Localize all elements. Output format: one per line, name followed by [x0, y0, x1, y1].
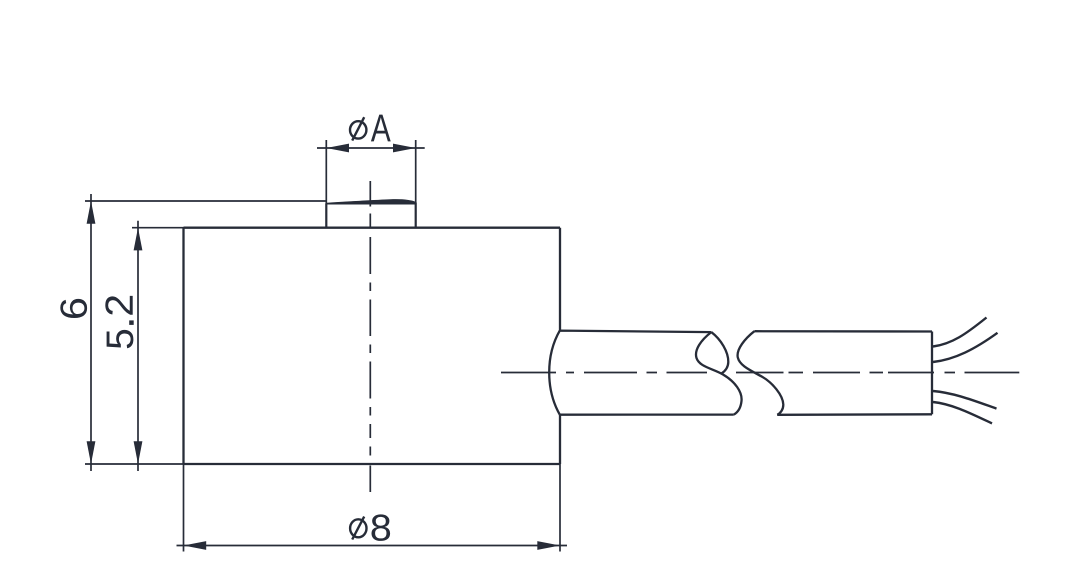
dimension 5.2 bottom arrow	[134, 441, 143, 464]
cable right segment outline	[754, 331, 932, 415]
load button right edge	[415, 202, 417, 227]
dimension ø8 extension line (right)	[559, 464, 561, 552]
wire 4	[933, 402, 992, 423]
sensor body	[184, 228, 561, 464]
cable break left squiggle	[696, 332, 742, 415]
cable left segment outline	[549, 331, 734, 415]
wire 1	[933, 318, 987, 347]
dimension 6 bottom arrow	[87, 441, 96, 464]
dimension 6 dimension line	[90, 194, 92, 471]
horizontal centerline	[501, 372, 1019, 374]
dimension 5.2 top arrow	[134, 228, 143, 251]
dimension øA extension lines	[326, 140, 415, 203]
dimension 6 label	[60, 299, 87, 318]
dimension ø8 right arrow	[537, 541, 560, 550]
dimension ø8 left arrow	[184, 541, 207, 550]
dimension øA label	[350, 115, 391, 142]
vertical centerline	[369, 181, 371, 492]
dimension 5.2 dimension line	[137, 221, 139, 471]
wire 3	[933, 391, 997, 409]
dimension 6 extension line (bottom)	[85, 463, 184, 465]
dimension ø8 extension line (left)	[183, 464, 185, 552]
dimension 6 extension line (top)	[85, 200, 327, 202]
dimension øA dimension line	[317, 147, 425, 149]
dimension 5.2 label	[105, 296, 133, 348]
dimension øA left arrow	[326, 144, 349, 153]
dimension øA right arrow	[393, 144, 416, 153]
load button spherical top	[326, 199, 415, 204]
wire 2	[933, 333, 998, 362]
cable end cap	[931, 332, 933, 415]
dimension 6 top arrow	[87, 201, 96, 224]
load button left edge	[325, 203, 327, 228]
dimension ø8 dimension line	[177, 545, 568, 547]
dimension ø8 label	[350, 514, 390, 541]
cable break right squiggle	[738, 331, 784, 415]
dimension 5.2 extension line (top)	[132, 227, 184, 229]
